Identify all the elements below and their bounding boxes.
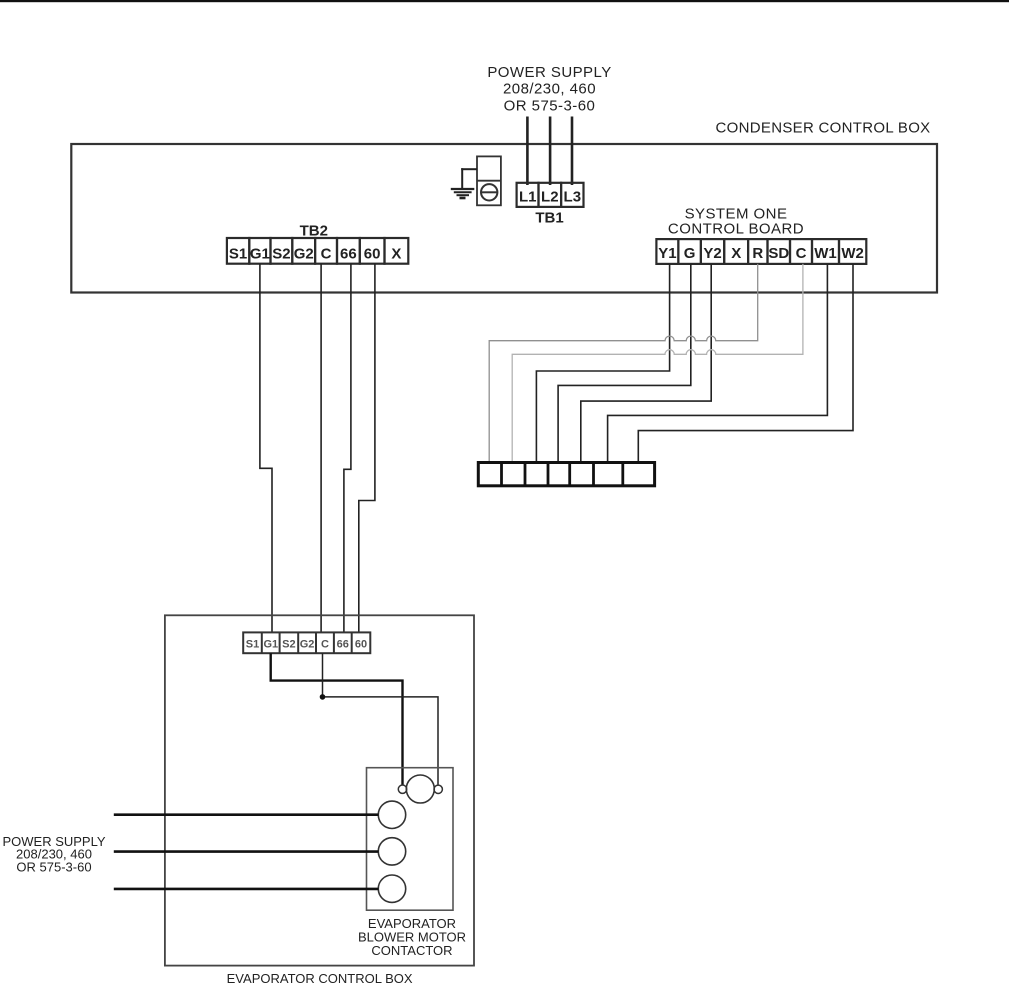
svg-text:C: C: [321, 639, 329, 651]
svg-text:L3: L3: [564, 188, 582, 205]
svg-text:CONTROL BOARD: CONTROL BOARD: [668, 221, 804, 238]
svg-text:S1: S1: [229, 245, 247, 262]
svg-text:X: X: [731, 245, 741, 262]
svg-text:66: 66: [337, 639, 349, 651]
svg-text:CONDENSER CONTROL BOX: CONDENSER CONTROL BOX: [716, 119, 931, 136]
svg-text:66: 66: [340, 245, 357, 262]
svg-text:G1: G1: [250, 245, 270, 262]
svg-text:S1: S1: [246, 639, 259, 651]
svg-text:C: C: [321, 245, 332, 262]
svg-text:C: C: [796, 245, 807, 262]
svg-text:G1: G1: [263, 639, 278, 651]
svg-text:60: 60: [355, 639, 367, 651]
svg-text:OR 575-3-60: OR 575-3-60: [16, 859, 91, 874]
svg-text:W1: W1: [814, 245, 837, 262]
svg-text:CONTACTOR: CONTACTOR: [371, 943, 452, 958]
svg-text:POWER SUPPLY: POWER SUPPLY: [487, 64, 611, 81]
svg-text:L1: L1: [519, 188, 537, 205]
svg-text:Y2: Y2: [703, 245, 721, 262]
svg-text:R: R: [752, 245, 763, 262]
svg-text:TB1: TB1: [535, 210, 563, 227]
svg-text:G: G: [684, 245, 696, 262]
svg-text:X: X: [391, 245, 401, 262]
svg-text:OR 575-3-60: OR 575-3-60: [504, 98, 596, 115]
svg-text:G2: G2: [294, 245, 314, 262]
svg-text:W2: W2: [841, 245, 864, 262]
svg-text:S2: S2: [282, 639, 295, 651]
svg-text:EVAPORATOR CONTROL BOX: EVAPORATOR CONTROL BOX: [227, 971, 413, 985]
svg-text:S2: S2: [272, 245, 290, 262]
svg-text:208/230, 460: 208/230, 460: [503, 81, 596, 98]
svg-text:SD: SD: [768, 245, 789, 262]
svg-text:G2: G2: [300, 639, 315, 651]
svg-text:60: 60: [364, 245, 381, 262]
svg-text:L2: L2: [541, 188, 559, 205]
svg-text:Y1: Y1: [658, 245, 676, 262]
